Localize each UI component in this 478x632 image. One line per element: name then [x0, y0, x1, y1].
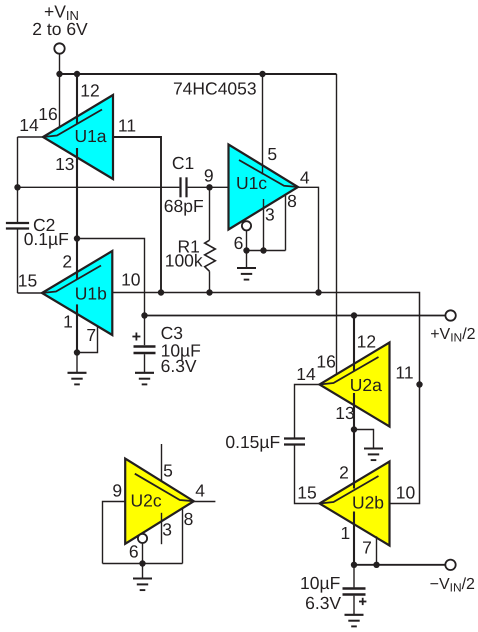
svg-text:2: 2 — [339, 463, 349, 483]
capacitor 10uF 6.3V bottom — [353, 565, 355, 588]
svg-text:C1: C1 — [172, 153, 194, 173]
svg-text:2: 2 — [62, 252, 72, 272]
svg-text:14: 14 — [19, 115, 39, 135]
svg-text:U2a: U2a — [350, 375, 382, 395]
svg-text:12: 12 — [80, 81, 99, 101]
wire U1a pin13 to U1b pin2 — [76, 148, 78, 279]
svg-text:6: 6 — [234, 233, 244, 253]
ground C3 — [135, 373, 154, 385]
wire common output row — [112, 293, 419, 504]
wire U1c pin4 — [298, 187, 319, 292]
U1c inhibit bubble pin6 — [242, 221, 251, 230]
capacitor C3 — [144, 316, 146, 346]
wire U2a pin12 — [353, 316, 355, 372]
node U2a pin13 — [351, 426, 357, 432]
svg-text:4: 4 — [195, 481, 205, 501]
svg-text:U2c: U2c — [131, 491, 162, 511]
wire U1c pin3 — [263, 199, 265, 251]
wire U2c ground jumper — [103, 563, 183, 565]
svg-text:5: 5 — [267, 144, 277, 164]
wire U2a pin14 to 0.15uF — [295, 385, 320, 438]
op-amp U1a — [43, 95, 113, 179]
ground U2a pin13 — [364, 449, 383, 461]
svg-text:1: 1 — [341, 523, 351, 543]
svg-text:1: 1 — [63, 312, 73, 332]
ground U2c — [142, 564, 144, 579]
node U2c gnd — [139, 560, 145, 566]
svg-text:3: 3 — [162, 520, 172, 540]
wire U2c pin8 — [182, 508, 184, 563]
svg-text:13: 13 — [335, 403, 354, 423]
C3 plus sign — [132, 336, 140, 338]
wire U1c pin5 — [262, 74, 264, 175]
svg-text:4: 4 — [300, 168, 310, 188]
svg-text:16: 16 — [38, 104, 57, 124]
svg-text:15: 15 — [18, 271, 37, 291]
terminal +VIN/2 — [445, 310, 455, 320]
terminal -VIN/2 — [445, 560, 455, 570]
wire U1c ground jumper — [247, 250, 286, 252]
wire U2a pin13 ground link — [354, 430, 374, 449]
svg-text:−VIN/2: −VIN/2 — [430, 576, 475, 594]
svg-text:100k: 100k — [165, 250, 203, 270]
svg-text:11: 11 — [118, 116, 136, 136]
svg-text:10: 10 — [121, 270, 141, 290]
wire U1a pin12 — [76, 74, 78, 124]
node +VIN/2 — [141, 312, 147, 318]
capacitor C1 — [179, 177, 181, 197]
svg-text:74HC4053: 74HC4053 — [173, 79, 257, 99]
svg-text:9: 9 — [204, 166, 214, 186]
wire U2b pin1 — [353, 512, 355, 565]
svg-text:6: 6 — [129, 542, 139, 562]
wire U1a pin11 — [113, 137, 161, 293]
node pin13 — [74, 235, 80, 241]
wire 0.15uF to U2b pin15 — [295, 446, 320, 504]
wire U1b pin7 — [77, 326, 98, 353]
svg-text:13: 13 — [55, 154, 74, 174]
node -VIN/2 — [351, 562, 357, 568]
wire U1a pin16 — [59, 74, 61, 127]
capacitor 0.15uF — [284, 437, 305, 439]
capacitor C2 — [6, 222, 29, 224]
wire C2 top lead — [17, 137, 19, 222]
svg-text:U1c: U1c — [236, 173, 267, 193]
svg-text:10: 10 — [396, 483, 416, 503]
wire U2b pin2 — [353, 430, 355, 489]
wire U2c pin9 — [103, 502, 126, 564]
node U1c gnd — [243, 247, 249, 253]
svg-text:U1a: U1a — [74, 126, 106, 146]
op-amp U1c — [229, 145, 299, 230]
U2c inhibit bubble pin6 — [138, 534, 147, 543]
node U1b pin1 — [74, 349, 80, 355]
wire node pin14/pin9 horizontal — [18, 186, 180, 188]
svg-text:6.3V: 6.3V — [305, 593, 341, 613]
wire U1c pin8 — [285, 195, 287, 251]
svg-text:U1b: U1b — [75, 284, 107, 304]
svg-text:6.3V: 6.3V — [161, 356, 197, 376]
op-amp U2b — [320, 462, 390, 546]
wire U1a pin14 — [18, 136, 44, 138]
node U2a pin11 — [416, 381, 422, 387]
wire +VIN/2 rail — [145, 315, 446, 317]
svg-text:U2b: U2b — [352, 493, 384, 513]
wire rail drop to U2a pin16 — [336, 74, 338, 375]
ground U1c — [246, 251, 248, 269]
wire U1b pin1 — [76, 304, 78, 352]
svg-text:9: 9 — [112, 481, 122, 501]
svg-text:8: 8 — [184, 509, 194, 529]
terminal +VIN — [54, 43, 64, 53]
svg-text:16: 16 — [316, 352, 335, 372]
svg-text:0.15µF: 0.15µF — [225, 432, 280, 452]
wire C2 bottom lead to U1b pin15 — [17, 230, 19, 294]
wire U2c pin4 stub — [194, 501, 216, 503]
wire top rail — [60, 73, 337, 75]
ground U1b — [76, 353, 78, 373]
svg-text:0.1µF: 0.1µF — [24, 229, 69, 249]
svg-text:5: 5 — [163, 461, 173, 481]
svg-text:7: 7 — [362, 538, 372, 558]
svg-text:15: 15 — [297, 483, 316, 503]
wire U1b pin2 feed to +VIN/2 node — [77, 239, 145, 316]
svg-text:2 to 6V: 2 to 6V — [32, 19, 88, 39]
node output row — [158, 289, 164, 295]
wire terminal stem — [59, 54, 61, 74]
bottom cap plus sign — [359, 601, 366, 603]
svg-text:12: 12 — [357, 331, 376, 351]
svg-text:68pF: 68pF — [164, 196, 204, 216]
svg-text:14: 14 — [296, 364, 316, 384]
resistor R1 — [209, 187, 211, 240]
svg-text:3: 3 — [265, 204, 275, 224]
wire U2a pin13 — [353, 393, 355, 430]
node +VIN junction — [56, 71, 62, 77]
op-amp U2c — [125, 459, 194, 544]
node C2/pin9 row — [14, 184, 20, 190]
op-amp U1b — [42, 251, 112, 335]
ground bottom cap — [345, 615, 364, 627]
svg-text:7: 7 — [86, 325, 96, 345]
svg-text:+VIN/2: +VIN/2 — [430, 326, 475, 344]
wire U2c pin3 stub — [161, 513, 163, 544]
wire -VIN/2 rail — [354, 564, 445, 566]
op-amp U2a — [320, 343, 390, 427]
svg-text:11: 11 — [395, 363, 413, 383]
wire U2b pin7 — [376, 536, 378, 565]
svg-text:8: 8 — [287, 191, 297, 211]
svg-text:10µF: 10µF — [300, 573, 340, 593]
wire U2c pin5 stub — [161, 444, 163, 482]
